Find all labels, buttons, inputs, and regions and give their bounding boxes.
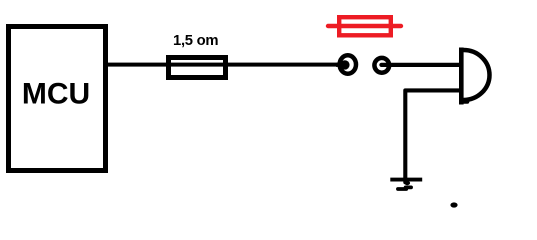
buzzer BZ1 dome <box>464 50 490 100</box>
red fuse symbol body <box>339 17 391 35</box>
contact pin P2 (open terminal, right) <box>374 58 389 73</box>
wire: MCU to resistor R1 <box>105 63 168 67</box>
svg-text:MCU: MCU <box>22 77 90 110</box>
ground bar <box>390 178 422 182</box>
svg-text:1,5 om: 1,5 om <box>173 33 219 49</box>
buzzer BZ1 bottom joint nub <box>463 100 467 104</box>
wire: P2 to buzzer BZ1 <box>381 63 461 67</box>
ground wire tip nub <box>404 181 410 185</box>
MCU block U1 <box>9 27 106 171</box>
wire: through R1 and on to contact P1 <box>168 63 341 67</box>
red fuse symbol lead wire <box>328 24 401 28</box>
ground lower dash <box>398 187 411 189</box>
resistor R1 body (box symbol) <box>169 58 226 78</box>
buzzer BZ1 flat plate <box>459 48 464 105</box>
wire tip inside P1 <box>336 60 350 69</box>
wire: buzzer BZ1 to ground <box>405 90 461 182</box>
contact pin P1 (open terminal, left) <box>340 55 356 73</box>
stray ink dot <box>450 202 457 207</box>
